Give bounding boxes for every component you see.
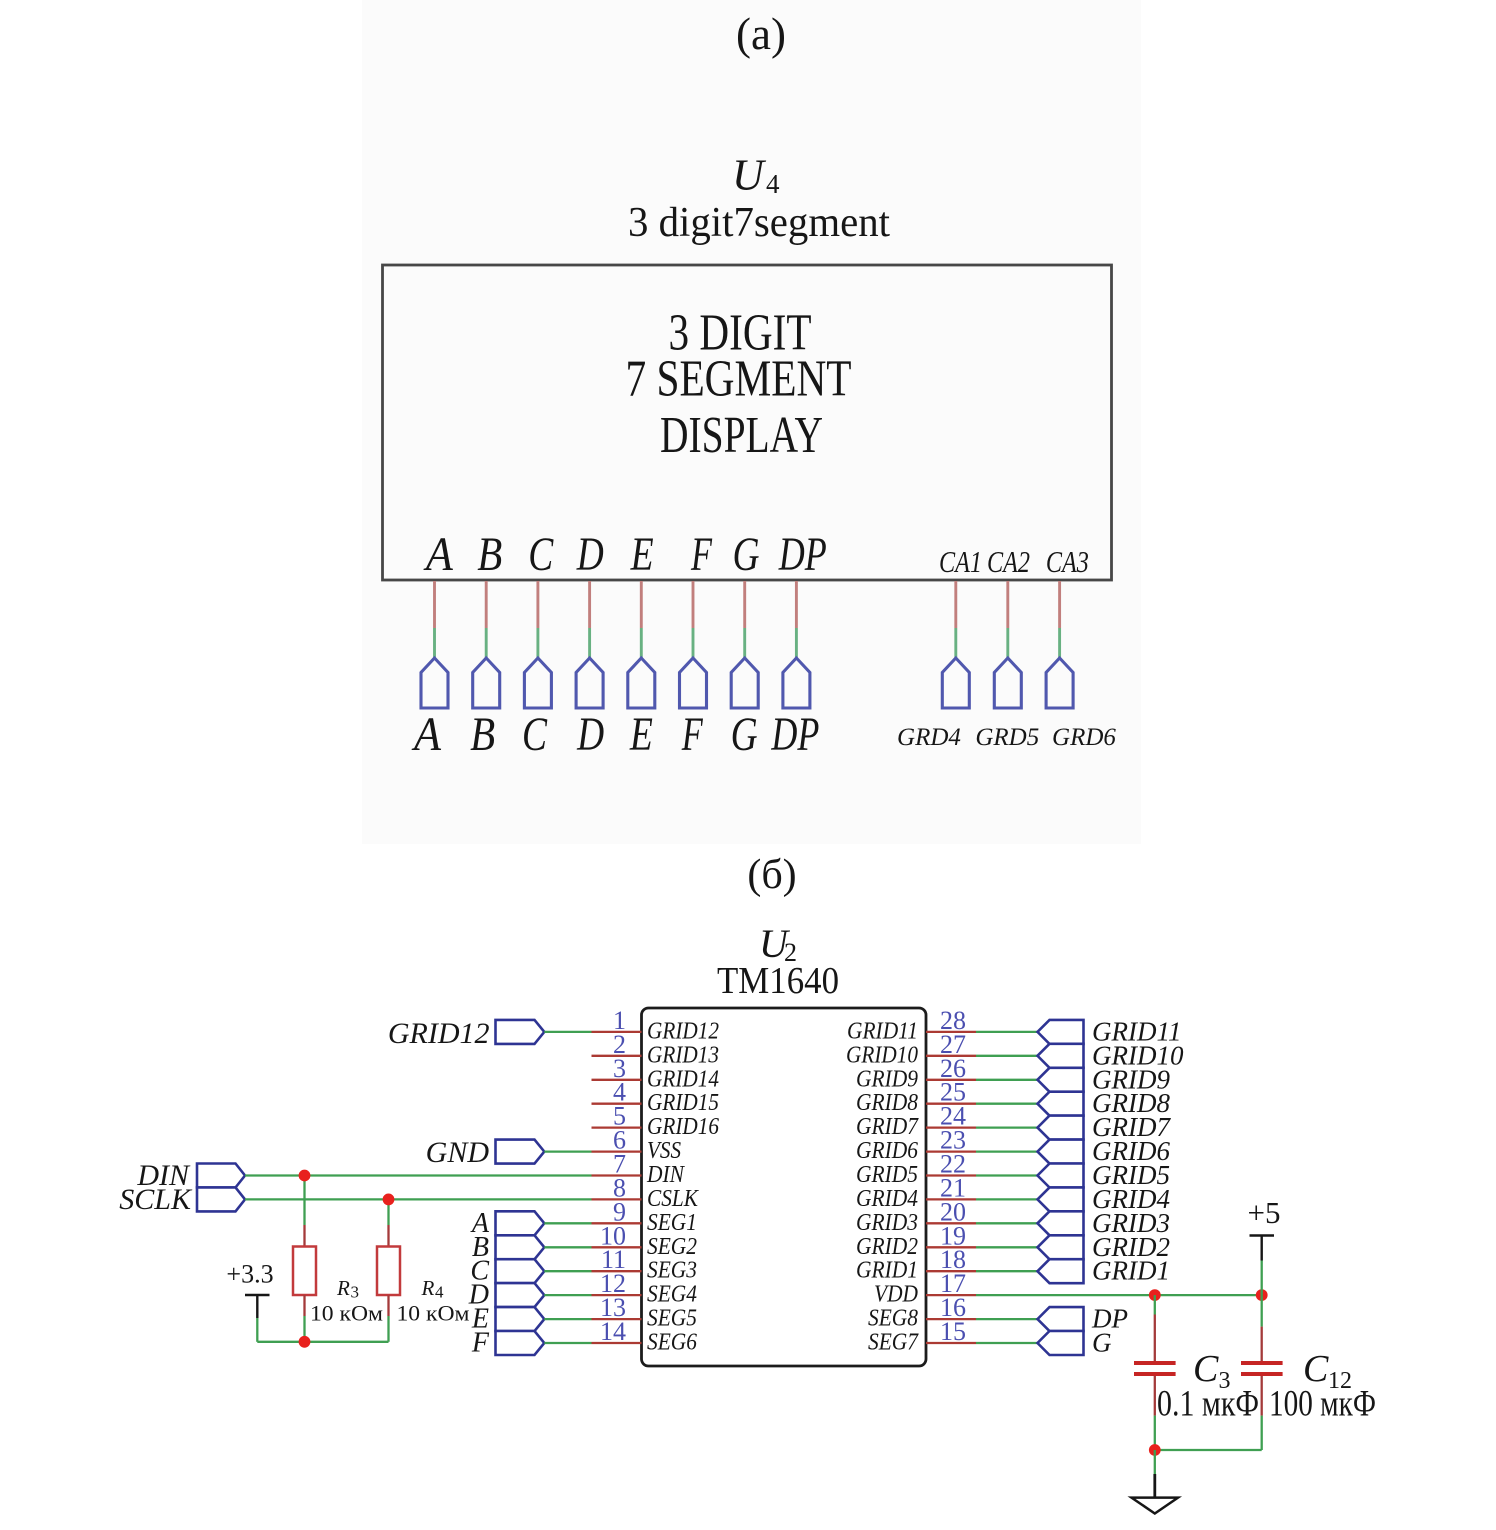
svg-text:B: B <box>470 708 495 761</box>
svg-text:14: 14 <box>600 1317 626 1346</box>
svg-text:GRID7: GRID7 <box>856 1114 919 1140</box>
svg-text:E: E <box>630 528 654 581</box>
svg-text:TM1640: TM1640 <box>717 960 839 1002</box>
svg-text:G: G <box>1092 1328 1112 1358</box>
svg-text:G: G <box>733 528 760 581</box>
svg-text:GRID8: GRID8 <box>856 1090 918 1116</box>
svg-text:DP: DP <box>771 708 820 761</box>
svg-text:(б): (б) <box>747 852 796 898</box>
svg-text:3: 3 <box>351 1283 360 1302</box>
svg-text:SEG8: SEG8 <box>868 1306 918 1332</box>
svg-text:4: 4 <box>435 1283 444 1302</box>
svg-text:G: G <box>731 708 758 761</box>
svg-text:C: C <box>528 528 554 581</box>
svg-text:4: 4 <box>766 169 780 199</box>
svg-text:GRID12: GRID12 <box>388 1017 490 1050</box>
svg-text:+5: +5 <box>1248 1195 1281 1230</box>
svg-text:GRID1: GRID1 <box>1092 1256 1170 1286</box>
svg-text:R: R <box>336 1276 350 1300</box>
svg-text:+3.3: +3.3 <box>226 1260 273 1289</box>
svg-text:CA1: CA1 <box>939 544 982 579</box>
svg-text:GRID1: GRID1 <box>856 1258 918 1284</box>
svg-text:SEG7: SEG7 <box>868 1330 919 1356</box>
svg-text:U: U <box>732 151 767 200</box>
svg-text:GRID14: GRID14 <box>647 1066 719 1092</box>
svg-text:DP: DP <box>778 528 827 581</box>
svg-text:VDD: VDD <box>874 1282 918 1308</box>
svg-text:D: D <box>576 708 604 761</box>
svg-text:SEG6: SEG6 <box>647 1330 697 1356</box>
svg-text:F: F <box>690 528 712 581</box>
svg-text:7 SEGMENT: 7 SEGMENT <box>626 351 852 408</box>
svg-text:GRID12: GRID12 <box>647 1018 719 1044</box>
svg-text:GRD6: GRD6 <box>1052 724 1116 751</box>
svg-text:SCLK: SCLK <box>119 1183 193 1216</box>
svg-text:F: F <box>471 1328 490 1359</box>
svg-text:GRID11: GRID11 <box>847 1018 918 1044</box>
svg-text:GRD5: GRD5 <box>975 724 1039 751</box>
svg-text:GRID5: GRID5 <box>856 1162 918 1188</box>
svg-text:(a): (a) <box>736 9 786 59</box>
svg-text:C: C <box>522 708 548 761</box>
svg-text:E: E <box>629 708 653 761</box>
svg-text:CSLK: CSLK <box>647 1186 700 1212</box>
svg-text:GRID2: GRID2 <box>856 1234 918 1260</box>
svg-text:SEG2: SEG2 <box>647 1234 697 1260</box>
svg-text:GRID10: GRID10 <box>846 1042 918 1068</box>
svg-text:SEG1: SEG1 <box>647 1210 697 1236</box>
svg-text:10 кОм: 10 кОм <box>310 1301 383 1326</box>
svg-text:R: R <box>421 1276 435 1300</box>
svg-text:SEG4: SEG4 <box>647 1282 697 1308</box>
svg-text:CA2: CA2 <box>987 544 1030 579</box>
svg-text:GRID4: GRID4 <box>856 1186 918 1212</box>
svg-text:A: A <box>411 708 441 761</box>
svg-text:D: D <box>576 528 604 581</box>
svg-text:A: A <box>423 528 453 581</box>
svg-text:GRD4: GRD4 <box>897 724 961 751</box>
svg-text:SEG5: SEG5 <box>647 1306 697 1332</box>
svg-text:GRID15: GRID15 <box>647 1090 719 1116</box>
svg-text:GND: GND <box>426 1136 490 1169</box>
svg-text:GRID6: GRID6 <box>856 1138 918 1164</box>
svg-text:GRID9: GRID9 <box>856 1066 918 1092</box>
svg-text:10 кОм: 10 кОм <box>397 1301 470 1326</box>
svg-text:CA3: CA3 <box>1046 544 1089 579</box>
svg-text:100 мкФ: 100 мкФ <box>1269 1384 1376 1425</box>
svg-text:SEG3: SEG3 <box>647 1258 697 1284</box>
svg-text:3 digit7segment: 3 digit7segment <box>628 200 890 246</box>
svg-text:0.1 мкФ: 0.1 мкФ <box>1157 1384 1259 1425</box>
svg-text:GRID16: GRID16 <box>647 1114 719 1140</box>
svg-text:GRID3: GRID3 <box>856 1210 918 1236</box>
svg-text:DIN: DIN <box>646 1162 686 1188</box>
svg-text:VSS: VSS <box>647 1138 681 1164</box>
svg-text:F: F <box>681 708 703 761</box>
svg-text:15: 15 <box>940 1317 966 1346</box>
svg-text:GRID13: GRID13 <box>647 1042 719 1068</box>
svg-text:DISPLAY: DISPLAY <box>660 407 823 464</box>
svg-text:B: B <box>477 528 502 581</box>
